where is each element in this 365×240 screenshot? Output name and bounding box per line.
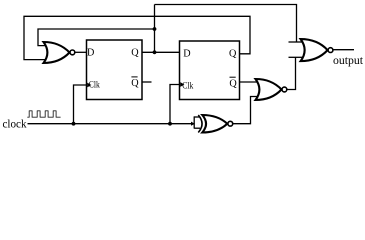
nor gate G4 right [301, 39, 333, 61]
U1 pin label Qbar [131, 77, 139, 89]
clock waveform symbol [27, 111, 60, 117]
svg-text:Q: Q [131, 48, 139, 59]
svg-text:D: D [183, 49, 190, 60]
wire Q1 branch to NOR1 top input [38, 29, 155, 46]
wire XNOR output to NOR2 input [233, 97, 259, 124]
d flip-flop U2 [180, 41, 240, 100]
xnor gate G2 [198, 115, 232, 133]
svg-text:clock: clock [3, 119, 27, 131]
U1 clk arrowhead [87, 83, 91, 88]
nor gate G3 middle [256, 79, 287, 100]
wire NOR2 output to NOR3 input [286, 57, 295, 89]
nor gate G1 [44, 42, 75, 63]
wire clock branch to Clk1 [74, 85, 88, 124]
G2 input arrowhead [191, 122, 195, 126]
U2 pin label Qbar [229, 77, 237, 89]
svg-text:D: D [87, 48, 94, 59]
wire NOR1 output to D1 [75, 51, 88, 53]
wire clock branch to Clk2 [170, 85, 180, 124]
svg-text:output: output [333, 53, 364, 67]
svg-text:Clk: Clk [182, 81, 193, 92]
wire Q1bar stub [142, 81, 152, 83]
wire NOR3 bottom input stub [289, 56, 304, 58]
svg-text:Q: Q [229, 79, 237, 90]
wire clock net [28, 123, 195, 125]
junction dot clock to Clk1 [72, 122, 76, 126]
svg-text:Clk: Clk [89, 79, 100, 90]
wire output [332, 49, 354, 51]
junction dot clock to Clk2 [168, 122, 172, 126]
wire vertical from Q1 node up [154, 5, 156, 53]
wire net Q2 feedback top [24, 16, 250, 59]
G2 tied-input bracket [194, 116, 200, 128]
wire Q2bar to NOR2 input [240, 81, 260, 83]
svg-text:Q: Q [131, 78, 139, 89]
d flip-flop U1 [87, 40, 143, 100]
junction dot at Q1 node [153, 50, 157, 54]
svg-text:Q: Q [229, 49, 237, 60]
wire NOR3 top input stub [289, 41, 304, 43]
U2 clk arrowhead [180, 82, 184, 87]
wire net Q1 to D2 [142, 51, 181, 53]
wire Q1 branch top to NOR3 [155, 5, 297, 43]
junction dot at Q1 branch [153, 27, 157, 31]
